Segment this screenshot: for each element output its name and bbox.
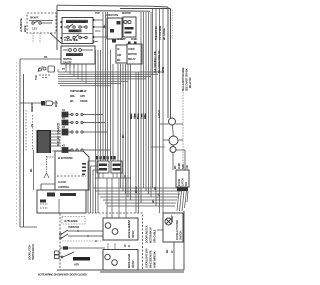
svg-text:TB: TB	[44, 55, 47, 59]
wire vertical bus group M	[118, 64, 131, 200]
svg-text:TOD: TOD	[34, 75, 38, 80]
svg-text:BAKE: BAKE	[23, 25, 27, 32]
wire latch circle links	[172, 125, 175, 146]
wire dashed chassis left	[26, 110, 33, 152]
switch door latch circle S1	[170, 147, 176, 153]
lamp box	[163, 213, 183, 242]
svg-text:SWITCH: SWITCH	[69, 29, 78, 33]
wire dashed far-left chassis	[16, 62, 18, 227]
wire vertical bus group R	[136, 12, 151, 213]
terminals on box E	[128, 42, 137, 45]
svg-text:BK: BK	[151, 199, 155, 203]
wire stubs under box1b	[66, 64, 74, 68]
fan motor contacts	[124, 20, 134, 33]
label cluster above latch box	[173, 162, 189, 169]
marks in box A	[110, 21, 121, 43]
wire tap to latch line	[151, 146, 165, 148]
wire feeds between element boxes	[108, 243, 115, 250]
junction dots oven wires	[77, 230, 97, 242]
power board box	[37, 190, 86, 213]
svg-text:60HZ SEE NOTE: 60HZ SEE NOTE	[149, 250, 153, 268]
wire drop stubs from light switch box	[58, 64, 86, 84]
switch oven lower	[61, 252, 74, 258]
label columns left of lamp box	[145, 225, 157, 268]
svg-text:LATCH: LATCH	[157, 110, 161, 118]
wire dashed oven mid	[62, 240, 103, 242]
label control board	[58, 156, 73, 189]
svg-text:BK: BK	[121, 134, 125, 138]
heater bar	[73, 257, 90, 261]
connector block J2	[111, 161, 122, 173]
wire vertical group far right	[153, 9, 164, 213]
svg-text:MAG & MOTOR WIRE: MAG & MOTOR WIRE	[181, 67, 185, 91]
svg-text:DOOR ACTUATED: DOOR ACTUATED	[175, 220, 179, 240]
svg-text:BK: BK	[103, 24, 107, 28]
switch oven-light box U2	[61, 46, 95, 64]
wire right frame verticals	[168, 7, 171, 118]
svg-text:OR-BK: OR-BK	[80, 99, 88, 103]
broil element coils	[105, 254, 117, 265]
relay module box A	[107, 18, 122, 39]
svg-text:GRY CABLE: GRY CABLE	[153, 229, 157, 243]
svg-text:BK: BK	[129, 115, 133, 119]
svg-text:OVEN SELECTOR: OVEN SELECTOR	[66, 20, 86, 24]
label wire codes top right col1	[154, 25, 166, 40]
wire lamp box to bottom	[173, 242, 175, 270]
svg-text:CLEAN TIME: CLEAN TIME	[64, 38, 78, 42]
switch alternate-bake dashed box	[27, 13, 56, 33]
svg-text:HI LIMIT: HI LIMIT	[117, 37, 126, 41]
wire horizontal bus center	[58, 72, 164, 86]
wire latch connections	[160, 124, 186, 170]
svg-text:GRY: GRY	[80, 94, 85, 98]
wire control to lower left	[41, 184, 55, 190]
bake element coils	[105, 223, 118, 235]
wire horizontal runs lower right	[93, 188, 184, 206]
label wire codes right col2	[153, 50, 165, 73]
svg-text:BK: BK	[70, 99, 74, 103]
wire left drop from top line	[56, 5, 58, 50]
dashed display row	[57, 175, 86, 177]
label wire codes latch column	[153, 186, 161, 196]
wire vertical bus group L	[96, 12, 114, 213]
svg-text:3600W: 3600W	[131, 260, 135, 268]
svg-text:RIBBON: RIBBON	[30, 103, 34, 112]
wire right frame bottom	[183, 211, 185, 270]
oven enclosure dashed box	[60, 213, 143, 270]
marks power board	[40, 193, 76, 203]
svg-text:MOTOR BK-W: MOTOR BK-W	[149, 227, 153, 243]
wire top supply lines	[57, 5, 171, 11]
svg-text:THE ORIGINAL LINE: THE ORIGINAL LINE	[153, 51, 157, 73]
svg-text:CONV: CONV	[128, 47, 135, 51]
svg-text:P7 BK-W: P7 BK-W	[73, 89, 83, 93]
svg-text:SWITCH: SWITCH	[63, 57, 72, 61]
wire stubs box1 to bus	[95, 20, 108, 42]
switch oven stacked diagonals	[60, 230, 103, 239]
svg-text:WIRE: WIRE	[161, 67, 165, 73]
label latch switch box	[177, 178, 188, 186]
svg-text:MOTOR: MOTOR	[122, 11, 131, 15]
svg-text:BROIL ELEM: BROIL ELEM	[127, 254, 131, 268]
small fuse rects bottom left	[55, 251, 60, 259]
switch contacts light switch	[63, 49, 93, 52]
wire bottom frame	[57, 270, 184, 272]
dashes power board	[40, 204, 48, 208]
label light switch	[63, 53, 83, 65]
svg-text:OR: OR	[185, 165, 189, 169]
wire jog below J blocks	[95, 177, 131, 179]
motor door latch circle M2	[169, 136, 178, 145]
svg-text:NOTE WIRING SHOWN WITH DOOR C: NOTE WIRING SHOWN WITH DOOR CLOSED	[38, 273, 87, 277]
wire comb to control box	[52, 150, 56, 152]
connector block J1	[97, 161, 109, 173]
svg-text:BK: BK	[117, 58, 121, 62]
svg-text:W-BK WIRE BK: W-BK WIRE BK	[153, 251, 157, 268]
svg-text:MOTOR: MOTOR	[128, 52, 137, 56]
relay K3 row	[62, 125, 107, 135]
marks display segments	[82, 163, 86, 175]
terminal marks on selector right edge	[93, 19, 95, 43]
wire left main vertical pair	[20, 59, 61, 227]
label wire codes under lamp box	[165, 249, 174, 253]
pins of ribbon comb	[38, 132, 50, 152]
svg-text:BK CABLE: BK CABLE	[162, 28, 166, 40]
background paper	[0, 0, 218, 285]
svg-text:GRY: GRY	[181, 164, 185, 169]
switch contacts in alternate-bake box	[29, 21, 53, 25]
terminal nubs box1 left edge	[61, 21, 63, 39]
label cluster under bus corners	[70, 89, 88, 103]
connector ribbon comb P2	[37, 130, 52, 153]
svg-text:OVEN SW: OVEN SW	[68, 225, 80, 229]
svg-text:CONV FAN: CONV FAN	[106, 13, 118, 17]
wire dashed drop from code cluster	[182, 92, 184, 170]
svg-text:SWITCH BK-W: SWITCH BK-W	[31, 243, 35, 260]
svg-text:DOOR LATCH: DOOR LATCH	[28, 245, 32, 260]
wire bottom-left corner	[20, 226, 37, 228]
wire oven lower row	[60, 247, 105, 249]
svg-text:BK-W: BK-W	[54, 100, 58, 107]
svg-text:RELAY: RELAY	[128, 57, 136, 61]
marks J1	[99, 164, 107, 171]
svg-text:MDL: MDL	[70, 94, 76, 98]
label ALTERNATE BAKE	[19, 18, 27, 32]
divider selector box	[62, 33, 93, 35]
svg-text:LAMP: LAMP	[170, 215, 174, 222]
label far right code cluster	[181, 67, 192, 91]
svg-text:BK: BK	[29, 168, 33, 172]
label door latch switch text bottom left	[28, 243, 36, 260]
connector plug P5	[20, 101, 58, 106]
svg-text:LIM: LIM	[117, 53, 121, 57]
svg-text:SWITCH: SWITCH	[179, 231, 183, 240]
svg-text:RELAY BOARD: RELAY BOARD	[57, 122, 61, 146]
wire dashed drops below alternate bake	[33, 33, 40, 43]
relay K2 row	[62, 116, 105, 125]
svg-text:TO TOP RISE: TO TOP RISE	[158, 25, 162, 40]
wire into lamp area	[157, 229, 163, 231]
connector marks lower row	[63, 246, 68, 249]
svg-text:OVEN LIGHT: OVEN LIGHT	[66, 53, 80, 57]
wire diagonal from alternate bake	[50, 33, 62, 44]
svg-text:HTR: HTR	[74, 263, 79, 267]
terminal header row on jogs	[96, 156, 116, 160]
control board box	[55, 151, 89, 190]
wire left riser to power board	[33, 150, 35, 190]
svg-text:ALTERNATE: ALTERNATE	[19, 18, 23, 32]
divider in power board	[58, 199, 60, 213]
label box E	[128, 47, 137, 61]
svg-text:3000W: 3000W	[131, 230, 135, 238]
switch oven-selector box U1	[62, 18, 93, 44]
svg-text:W-BK: W-BK	[177, 162, 181, 169]
fan motor box B	[123, 17, 136, 37]
lamp symbol	[165, 218, 172, 225]
marks J2	[113, 164, 121, 171]
svg-text:SEE CHART GRY-BK: SEE CHART GRY-BK	[185, 68, 189, 91]
latch switch box with text	[176, 170, 189, 187]
relay K1 row	[62, 108, 103, 117]
svg-text:BK W R: BK W R	[30, 16, 39, 20]
svg-text:CLOCK: CLOCK	[58, 180, 67, 184]
svg-text:TOP: TOP	[95, 11, 100, 15]
svg-text:1 2 3: 1 2 3	[32, 27, 38, 31]
wire stubs J boxes to jog	[99, 173, 121, 178]
wire fan-out below latch box	[177, 191, 188, 211]
switch contacts selector	[64, 24, 87, 39]
relay module box E	[127, 44, 142, 64]
svg-text:DOOR: DOOR	[177, 179, 181, 186]
terminal cluster under latch box	[177, 188, 188, 192]
svg-text:W-BK: W-BK	[131, 37, 138, 41]
wire jog left of group L	[88, 161, 101, 213]
svg-text:AUTO BAKE: AUTO BAKE	[64, 219, 78, 223]
label box D	[117, 47, 121, 62]
svg-text:OR: OR	[143, 115, 147, 119]
label inside selector	[64, 20, 88, 42]
wire faint dashed top right	[172, 10, 174, 40]
svg-text:BK: BK	[173, 165, 177, 169]
wire feeds to bake element box	[107, 178, 126, 218]
switch thermal cluster	[38, 66, 55, 78]
relay module box D	[116, 45, 127, 63]
label bus codes row mid	[131, 114, 146, 119]
label above boxes D E	[117, 37, 138, 41]
label door actuated switch	[175, 220, 183, 240]
svg-text:BK-W: BK-W	[134, 186, 138, 193]
bake element box	[103, 218, 138, 240]
wire ribbon to relay board	[50, 131, 61, 146]
dashed sub-box oven top interior	[62, 217, 85, 225]
svg-text:BK: BK	[165, 249, 169, 253]
label bus codes text	[129, 115, 147, 119]
relay K5 row	[62, 144, 110, 153]
svg-text:ELECTRONIC: ELECTRONIC	[58, 156, 73, 160]
keyboard arrow	[44, 156, 55, 178]
broil element box	[103, 250, 138, 271]
svg-text:DOOR UNLOCK: DOOR UNLOCK	[145, 225, 149, 243]
svg-text:BK-W OR: BK-W OR	[188, 77, 192, 88]
svg-text:CONTROL: CONTROL	[58, 185, 70, 189]
svg-text:LATCH: LATCH	[181, 178, 185, 186]
svg-text:THE HOT SU: THE HOT SU	[154, 26, 158, 40]
svg-text:BK CABLE WIRE OR: BK CABLE WIRE OR	[157, 50, 161, 73]
svg-text:BAKE ELEMENT: BAKE ELEMENT	[127, 219, 131, 238]
svg-text:OVEN LIGHT 120V: OVEN LIGHT 120V	[145, 248, 149, 268]
motor door latch circle M1	[169, 118, 176, 125]
svg-text:ON OFF: ON OFF	[63, 61, 72, 65]
